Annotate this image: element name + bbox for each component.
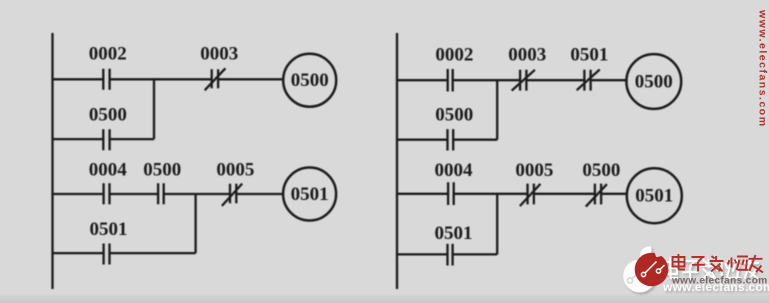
branch 1 wire (right ladder) bbox=[397, 139, 497, 141]
NO contact 0501 (right branch 2) bbox=[448, 244, 453, 266]
branch 1 wire (left ladder) bbox=[53, 138, 155, 140]
left power rail bbox=[51, 33, 53, 289]
NO contact 0501 (left branch 2) bbox=[104, 244, 110, 265]
svg-text:0500: 0500 bbox=[143, 160, 181, 181]
svg-text:0003: 0003 bbox=[508, 45, 546, 66]
coil 0500 (right rung 1) bbox=[626, 54, 681, 109]
svg-text:www.elecfans.com: www.elecfans.com bbox=[671, 276, 768, 287]
svg-text:0500: 0500 bbox=[435, 105, 473, 126]
NC contact 0005 (right rung 2) bbox=[520, 184, 541, 206]
branch junction J2 wire (left rung 2) bbox=[194, 194, 196, 253]
watermark: white brush text dian zi fa shao you bbox=[664, 258, 758, 279]
rung 2 wire (left ladder) bbox=[53, 193, 284, 195]
svg-text:www.elecfans.com: www.elecfans.com bbox=[757, 9, 769, 128]
svg-text:0002: 0002 bbox=[435, 45, 473, 66]
svg-text:0004: 0004 bbox=[435, 160, 474, 181]
branch junction J1 wire (left rung 1) bbox=[153, 79, 155, 139]
svg-text:0005: 0005 bbox=[216, 160, 254, 181]
branch 2 wire (left ladder) bbox=[53, 252, 196, 254]
svg-text:0002: 0002 bbox=[89, 44, 127, 65]
watermark: white elecfans logo bbox=[623, 246, 656, 292]
coil 0500 (left rung 1) bbox=[283, 54, 336, 107]
watermark: red text dian zi fa shao you bbox=[673, 254, 764, 273]
rung 1 wire (left ladder) bbox=[53, 78, 284, 80]
NC contact 0005 (left rung 2) bbox=[222, 184, 242, 206]
svg-text:0501: 0501 bbox=[635, 186, 673, 207]
NO contact 0002 (right rung 1) bbox=[448, 69, 453, 92]
NO contact 0500 (left rung 2) bbox=[158, 183, 164, 204]
NO contact 0004 (left rung 2) bbox=[104, 183, 110, 204]
svg-text:0501: 0501 bbox=[570, 45, 608, 66]
branch junction J4 wire (right rung 2) bbox=[496, 194, 498, 255]
branch 2 wire (right ladder) bbox=[397, 253, 497, 255]
svg-text:0500: 0500 bbox=[582, 160, 620, 181]
svg-text:0500: 0500 bbox=[291, 70, 329, 91]
svg-text:0005: 0005 bbox=[515, 160, 553, 181]
watermark: red elecfans badge bbox=[635, 245, 669, 286]
svg-text:0501: 0501 bbox=[435, 223, 473, 244]
svg-text:0500: 0500 bbox=[635, 72, 673, 93]
NC contact 0003 (right rung 1) bbox=[512, 70, 535, 91]
NO contact 0500 (right branch 1) bbox=[448, 129, 454, 150]
branch junction J3 wire (right rung 1) bbox=[496, 80, 498, 140]
rung 1 wire (right ladder) bbox=[397, 79, 626, 81]
NO contact 0500 (left branch 1) bbox=[103, 129, 109, 150]
rung 2 wire (right ladder) bbox=[397, 193, 627, 195]
NC contact 0501 (right rung 1) bbox=[577, 70, 600, 91]
svg-text:0501: 0501 bbox=[291, 184, 329, 205]
NO contact 0004 (right rung 2) bbox=[448, 182, 454, 205]
svg-text:0003: 0003 bbox=[200, 44, 238, 65]
right power rail bbox=[396, 33, 398, 289]
NC contact 0500 (right rung 2) bbox=[586, 184, 607, 207]
bottom shade band bbox=[0, 293, 769, 303]
svg-text:0004: 0004 bbox=[89, 160, 128, 181]
NC contact 0003 (left rung 1) bbox=[205, 68, 226, 90]
svg-text:0501: 0501 bbox=[90, 219, 128, 240]
coil 0501 (left rung 2) bbox=[283, 168, 336, 221]
svg-text:0500: 0500 bbox=[89, 105, 127, 126]
NO contact 0002 (left rung 1) bbox=[103, 69, 109, 90]
coil 0501 (right rung 2) bbox=[627, 168, 682, 223]
